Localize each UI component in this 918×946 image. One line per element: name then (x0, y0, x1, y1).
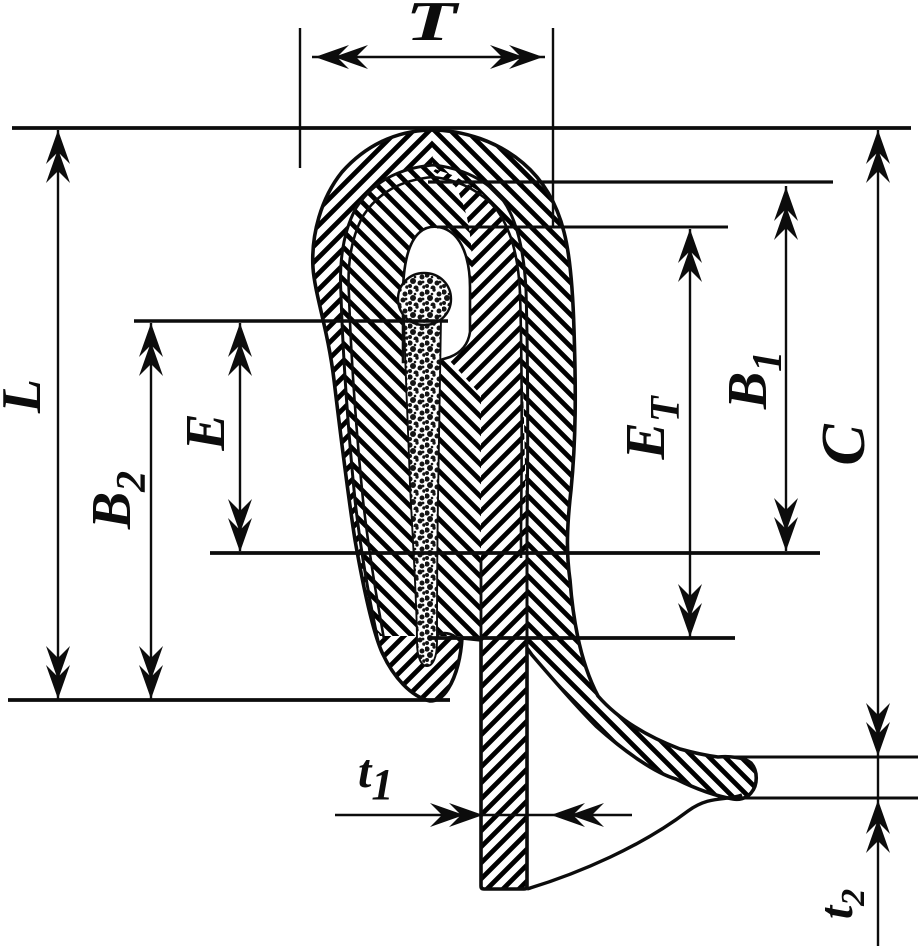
body outline (313, 130, 757, 889)
svg-text:L: L (0, 379, 53, 414)
arrowhead t2 up (866, 800, 890, 853)
big sweeping arc to tail nose (527, 795, 742, 889)
hatched body (295, 100, 770, 910)
arrowhead C top (866, 130, 890, 183)
arrowhead t1 right (points left) (551, 803, 604, 827)
outer-left band + cap region: / hatch (300, 100, 462, 715)
arrowhead B2 top (139, 323, 163, 376)
arrowhead L bottom (46, 646, 70, 699)
arrowhead B1 top (774, 187, 798, 240)
svg-text:E: E (175, 413, 237, 451)
svg-text:C: C (810, 424, 878, 466)
arrowhead ET bottom (678, 584, 702, 637)
ball head (stippled) (398, 273, 451, 325)
arrowhead B1 bottom (774, 498, 798, 551)
cap top curl (429, 633, 462, 660)
dimension line T (312, 56, 545, 58)
arrowhead t1 left (points right) (430, 803, 483, 827)
extension line T left (299, 28, 301, 168)
arrowhead T right (490, 45, 543, 69)
dimension line B2 (150, 323, 152, 699)
arrowhead T left (315, 45, 368, 69)
dimension line t1 (335, 814, 632, 816)
white slot (403, 227, 470, 362)
dimension line C / t2 (877, 130, 879, 946)
arrowhead L top (46, 130, 70, 183)
arrowhead E top (228, 323, 252, 376)
inter-sheet boundary line (outer/inner sheet), left+apex+right (341, 165, 528, 650)
dimension line E (239, 323, 241, 551)
second (parallel) boundary line of inner sheet (349, 177, 522, 639)
dimension line ET (689, 229, 691, 637)
extension line T right (552, 28, 554, 228)
stem left internal edge above cap line (480, 560, 483, 640)
dimension line L (57, 130, 59, 699)
dimension line B1 (785, 186, 787, 551)
arrowhead C bottom (866, 703, 890, 756)
arrowhead E bottom (228, 499, 252, 552)
arrowhead B2 bottom (139, 646, 163, 699)
arrowhead ET top (678, 229, 702, 282)
svg-text:T: T (405, 0, 459, 53)
inner-right band + stem: / hatch (426, 166, 527, 889)
core rod (stippled) (404, 316, 441, 666)
